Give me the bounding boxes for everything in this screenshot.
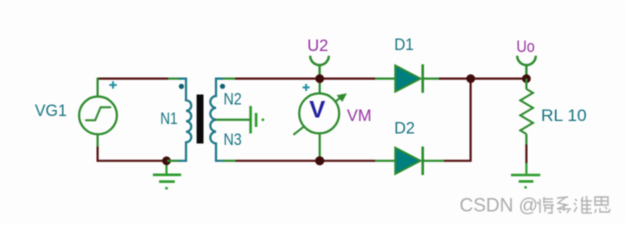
plus sign VM [303,84,310,91]
svg-text:N3: N3 [224,130,242,149]
ground (left, under junction) [153,161,181,188]
center tap wire [216,119,250,121]
diode D1 [375,64,439,93]
svg-text:V: V [309,97,325,124]
ground (center tap, rotated right) [251,106,263,134]
wire D2 cathode up to junction [444,79,471,161]
svg-text:N1: N1 [160,109,177,128]
junction (diode outputs) [466,74,475,83]
polarity dot N1 [179,84,184,89]
wire top-secondary (N2 to D1 anode) [235,77,376,79]
watermark glyph 情 [537,197,554,213]
svg-text:VG1: VG1 [35,101,67,120]
transformer core [197,95,204,144]
svg-text:N2: N2 [224,89,242,108]
transformer windings N2 N3 [210,79,223,161]
transformer secondary pin stubs [223,77,235,79]
ground (under RL) [511,163,540,187]
watermark glyph 思 [595,197,610,213]
diode D2 [375,147,444,176]
svg-text:CSDN @: CSDN @ [460,196,538,217]
voltage probe U2 [310,56,329,75]
svg-text:D1: D1 [394,35,414,54]
junction (voltmeter top) [315,74,324,83]
polarity dot N2 [220,84,225,89]
svg-text:D2: D2 [394,119,415,138]
node Uo [522,74,531,83]
svg-text:Uo: Uo [516,37,534,56]
resistor RL [520,79,533,145]
wire D1 cathode to output node [439,77,527,79]
wire bottom-left (VG1 bottom to ground junction) [98,146,163,161]
junction (voltmeter bottom) [315,156,324,165]
voltmeter VM [293,74,347,158]
voltage source VG1 [79,78,117,147]
plus sign VG1 [109,81,116,88]
watermark glyph 系 [557,197,571,213]
svg-text:RL 10: RL 10 [541,106,587,125]
svg-text:U2: U2 [307,36,328,55]
junction (bottom-left) [162,156,171,165]
wire bottom-secondary (N3 to D2 anode) [235,160,375,162]
voltage probe Uo [517,56,536,75]
svg-text:VM: VM [347,106,372,125]
watermark glyph 淮 [574,196,592,213]
transformer primary pin stubs [167,160,180,162]
wire RL bottom to ground [525,144,527,164]
wire top-left (VG1 top to transformer N1) [98,77,169,79]
transformer winding N1 [179,79,192,161]
